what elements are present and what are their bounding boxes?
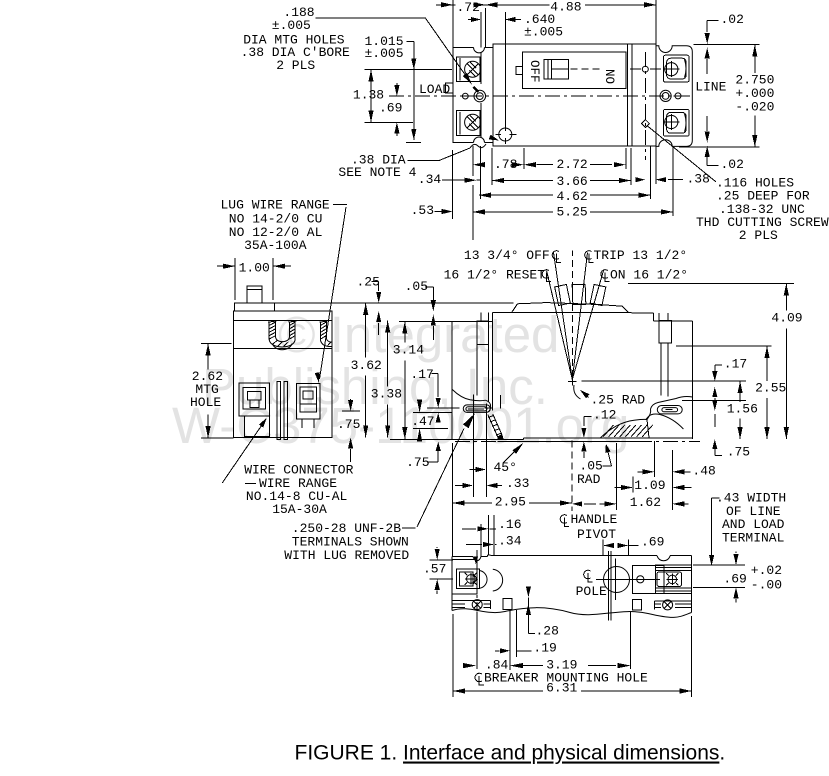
svg-text:.02: .02 xyxy=(721,157,744,172)
side view: internal step line xyxy=(492,322,494,411)
top view: small thd hole lower (diamond) xyxy=(641,120,649,128)
dim 2.62 vertical xyxy=(201,342,232,344)
top view: pole divider lines xyxy=(626,44,628,146)
ext lines below top view xyxy=(452,150,454,219)
top view: LOAD side bump xyxy=(446,83,454,93)
svg-text:6.31: 6.31 xyxy=(546,681,577,696)
bottom view: left terminal box xyxy=(452,560,477,594)
svg-text:3.14: 3.14 xyxy=(393,343,424,358)
svg-text:3.38: 3.38 xyxy=(371,387,402,402)
svg-text:.25 RAD: .25 RAD xyxy=(591,393,646,408)
top view: line terminal block 2 xyxy=(663,109,689,136)
svg-text:1.56: 1.56 xyxy=(727,402,758,417)
svg-text:16 1/2° RESET: 16 1/2° RESET xyxy=(444,268,546,283)
left view: cover line xyxy=(233,319,332,321)
svg-text:3.66: 3.66 xyxy=(557,174,588,189)
bottom view: small circle right of hole xyxy=(637,576,644,583)
side view: left terminal slot (stadium) xyxy=(463,405,490,413)
left view: wire connector left xyxy=(239,383,270,416)
svg-text:HOLE: HOLE xyxy=(190,395,221,410)
svg-text:SEE NOTE 4: SEE NOTE 4 xyxy=(338,165,416,180)
top view: load terminal screw block 2 xyxy=(457,111,480,136)
top view: toggle handle rectangle xyxy=(544,59,569,79)
bottom view: right hatch strip xyxy=(655,600,692,602)
side view: toggle position rects xyxy=(555,284,606,305)
bottom view: left hatch strip xyxy=(452,599,490,601)
svg-text:3.62: 3.62 xyxy=(351,358,382,373)
svg-text:2.55: 2.55 xyxy=(755,381,786,396)
side view: bottom edge with step xyxy=(452,438,523,440)
side view: pivot centerline extension right xyxy=(582,380,747,382)
top view: switch recess rectangle xyxy=(523,52,626,89)
bottom view: breaker mounting hole circle xyxy=(604,567,630,593)
side view: left hook profile (pocket lip and curl) xyxy=(452,390,485,401)
svg-text:-.00: -.00 xyxy=(751,578,782,593)
svg-text:PIVOT: PIVOT xyxy=(577,527,616,542)
dim .72 / 4.88 row xyxy=(436,4,456,6)
svg-text:HANDLE: HANDLE xyxy=(571,512,618,527)
svg-text:2.95: 2.95 xyxy=(495,495,526,510)
bottom view: pole centerline pair xyxy=(607,551,609,620)
top view: double circle line stud xyxy=(660,90,671,101)
side view: left upper outline xyxy=(451,322,453,440)
top view: right tab outline xyxy=(656,46,692,147)
svg-text:.38: .38 xyxy=(687,172,710,187)
svg-text:4.62: 4.62 xyxy=(557,189,588,204)
label C-L POLE xyxy=(584,570,593,582)
svg-text:2.72: 2.72 xyxy=(557,157,588,172)
svg-text:.75: .75 xyxy=(406,455,429,470)
svg-text:2 PLS: 2 PLS xyxy=(739,228,778,243)
svg-text:.69: .69 xyxy=(379,101,402,116)
svg-text:35A-100A: 35A-100A xyxy=(244,238,307,253)
svg-text:.16: .16 xyxy=(498,517,521,532)
top view: load terminal screw 1 (mtg hole) xyxy=(465,61,481,77)
svg-text:W-C375-110001.org: W-C375-110001.org xyxy=(172,397,629,454)
bottom view: small square left xyxy=(503,598,512,609)
svg-text:TRIP 13 1/2°: TRIP 13 1/2° xyxy=(594,248,688,263)
side view: escutcheon top profile xyxy=(512,303,629,313)
svg-text:RAD: RAD xyxy=(577,472,601,487)
svg-text:.57: .57 xyxy=(423,562,446,577)
left view: handle block xyxy=(247,286,262,303)
top view: small circle line side xyxy=(675,93,681,99)
left view: lug slot 2 (hatched) xyxy=(320,322,322,341)
side view: pivot fillet arc xyxy=(574,385,581,399)
ext lines between side and bottom views xyxy=(452,443,454,556)
svg-text:15A-30A: 15A-30A xyxy=(272,502,327,517)
svg-text:.19: .19 xyxy=(533,641,556,656)
top view: line screw 2 xyxy=(665,115,678,128)
svg-text:NO 14-2/0 CU: NO 14-2/0 CU xyxy=(229,211,323,226)
leader WIRE CONNECTOR to connector xyxy=(222,421,265,484)
svg-text:.69: .69 xyxy=(641,535,664,550)
svg-text:±.005: ±.005 xyxy=(272,18,311,33)
top view: small circle on load centerline xyxy=(462,93,468,99)
svg-text:POLE: POLE xyxy=(576,584,607,599)
svg-text:.75: .75 xyxy=(727,445,750,460)
svg-text:LINE: LINE xyxy=(695,80,726,95)
ext lines .16/.34 xyxy=(480,524,482,556)
side view: left recess rect xyxy=(477,321,488,345)
ext lines left of side view hook xyxy=(427,407,460,409)
side view: left chamfer band (hatched) xyxy=(488,415,498,438)
svg-text:ON: ON xyxy=(605,69,619,84)
left view bottom ext line xyxy=(390,438,452,440)
left view: inner line xyxy=(233,348,332,350)
leader to .116 holes note xyxy=(648,126,717,182)
svg-text:WITH LUG REMOVED: WITH LUG REMOVED xyxy=(284,548,409,563)
svg-text:.53: .53 xyxy=(411,203,434,218)
label C-L BREAKER MOUNTING HOLE xyxy=(475,673,484,685)
bottom view: left screw xyxy=(467,575,476,584)
side view: base plane dash-dot xyxy=(455,441,700,443)
bottom view: centerline arrow at handle slot xyxy=(474,557,478,565)
side view: toggle fan lines xyxy=(554,253,573,380)
label .43 WIDTH OF LINE AND LOAD TERMINAL xyxy=(712,497,720,499)
left view: body outline xyxy=(233,311,332,437)
svg-text:.02: .02 xyxy=(721,12,744,27)
svg-text:1.62: 1.62 xyxy=(630,495,661,510)
svg-text:+.02: +.02 xyxy=(751,563,782,578)
bottom view: right screw xyxy=(668,575,677,584)
bottom view: right mtg screw circle xyxy=(663,600,673,610)
top view: line terminal block 1 xyxy=(663,55,689,82)
svg-text:.25: .25 xyxy=(357,275,380,290)
leader UNF-2B to terminal slot xyxy=(417,429,464,528)
svg-text:.17: .17 xyxy=(724,357,747,372)
svg-text:.69: .69 xyxy=(723,572,746,587)
bottom view: breaker mounting hole centerline (left) xyxy=(476,550,478,612)
side view: right edge xyxy=(691,321,693,439)
bottom view: D bump xyxy=(479,571,487,589)
bottom view: small square right xyxy=(633,600,642,610)
svg-text:OFF: OFF xyxy=(527,60,541,83)
top view: .38 dia hole with crosshair xyxy=(499,128,512,141)
top view: left mounting tab outline xyxy=(453,47,474,142)
top view: double circle load stud xyxy=(474,90,486,102)
label handle pivot xyxy=(560,515,569,527)
svg-text:.28: .28 xyxy=(536,624,559,639)
svg-text:.33: .33 xyxy=(506,476,529,491)
svg-text:FIGURE 1. Interface and physi: FIGURE 1. Interface and physical dimensi… xyxy=(295,742,726,765)
svg-text:-.020: -.020 xyxy=(735,100,774,115)
svg-text:TERMINAL: TERMINAL xyxy=(722,530,784,545)
top view: breaker body outline xyxy=(493,44,656,146)
svg-text:ON 16 1/2°: ON 16 1/2° xyxy=(610,268,688,283)
right side ext lines xyxy=(676,345,771,347)
left view: top plate xyxy=(234,303,274,311)
top view: bump left of switch recess xyxy=(516,66,523,74)
left view: top plate line extending right xyxy=(275,302,514,304)
left view: lug slot 1 (hatched U channel) xyxy=(268,322,270,340)
side view: mounting wedge (hatched) xyxy=(600,419,647,437)
svg-text:±.005: ±.005 xyxy=(524,25,563,40)
side view: right recess rect xyxy=(659,320,672,342)
leader from .188 label to mtg hole screw xyxy=(315,17,425,19)
svg-text:13 3/4° OFF: 13 3/4° OFF xyxy=(464,248,550,263)
arrow row at 469.5 to chamfer ext xyxy=(470,469,476,471)
left view: wire connector right xyxy=(297,383,321,419)
bottom view: wavy break line xyxy=(452,608,691,618)
top view: line screw 1 xyxy=(665,63,678,76)
svg-text:.48: .48 xyxy=(692,464,715,479)
svg-text:2 PLS: 2 PLS xyxy=(276,58,315,73)
svg-text:5.25: 5.25 xyxy=(557,205,588,220)
bottom view: right terminal box xyxy=(633,566,664,594)
svg-text:45°: 45° xyxy=(494,460,517,475)
svg-text:1.00: 1.00 xyxy=(239,261,270,276)
top view: load terminal screw block 1 xyxy=(457,57,480,82)
svg-text:.17: .17 xyxy=(410,367,433,382)
side view: handle pivot crosshair xyxy=(568,380,577,382)
svg-text:.47: .47 xyxy=(411,414,434,429)
svg-text:.72: .72 xyxy=(457,0,480,15)
leader from LUG WIRE RANGE to connector xyxy=(320,207,347,379)
svg-text:.34: .34 xyxy=(418,172,442,187)
svg-text:1.09: 1.09 xyxy=(634,478,665,493)
bottom view: left mtg screw circle xyxy=(472,600,482,610)
top view: load terminal screw 2 (mtg hole) xyxy=(465,114,481,130)
side view: top edge xyxy=(493,312,632,314)
top view: toggle travel dash line xyxy=(571,68,601,70)
svg-text:.34: .34 xyxy=(498,534,522,549)
svg-text:LOAD: LOAD xyxy=(419,82,450,97)
svg-text:.75: .75 xyxy=(337,417,360,432)
side view: right hook profile xyxy=(651,397,693,410)
svg-text:.12: .12 xyxy=(593,408,616,423)
side view: right terminal slot (stadium) xyxy=(657,406,682,414)
top view: horizontal centerline (dash-dot) xyxy=(389,95,692,97)
svg-text:±.005: ±.005 xyxy=(365,46,404,61)
ext lines for .72/4.88 xyxy=(452,0,454,47)
top view: small thd hole upper xyxy=(642,66,648,72)
bottom view: outline xyxy=(452,555,473,557)
svg-text:4.09: 4.09 xyxy=(771,311,802,326)
svg-text:.05: .05 xyxy=(405,279,428,294)
left view: pole divider bars xyxy=(277,382,281,440)
side view: right step xyxy=(631,312,653,314)
bottom view: C cavity xyxy=(493,569,503,591)
top view: thd screw hole centerline (dash-dot) xyxy=(644,52,646,160)
